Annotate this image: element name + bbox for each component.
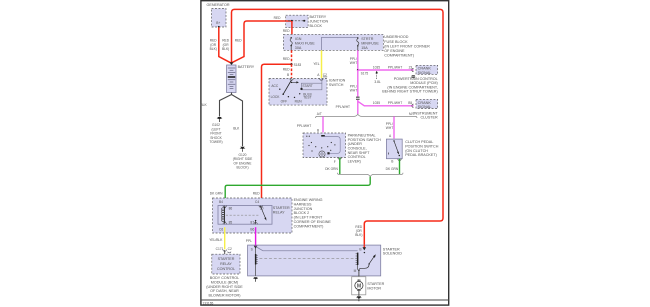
svg-text:ENGINE WIRING: ENGINE WIRING [294,198,323,202]
svg-text:BLK: BLK [233,127,240,131]
fuse STRTR MINIFUSE 15A [357,37,359,39]
svg-text:CONTROL: CONTROL [217,267,235,271]
svg-text:RED: RED [283,68,291,72]
node battery positive arrow [230,62,234,65]
crank signal PCM box [416,65,438,75]
wire PPL/WHT S175 to PCM crank signal [358,69,414,71]
svg-text:RED: RED [283,57,291,61]
node S183 [290,63,292,65]
instrument cluster label [414,111,439,119]
svg-text:SIGNAL: SIGNAL [418,71,432,75]
wire PPL relay B6 to solenoid S [255,227,257,245]
svg-text:PEDAL BRACKET): PEDAL BRACKET) [405,153,437,157]
svg-text:B4: B4 [219,200,223,204]
battery [227,65,255,93]
svg-text:BEHIND RIGHT STRUT TOWER): BEHIND RIGHT STRUT TOWER) [382,90,437,94]
svg-text:CLUSTER: CLUSTER [420,116,438,120]
svg-text:PPL/WHT: PPL/WHT [388,65,402,69]
svg-text:M: M [354,269,357,273]
svg-text:15A: 15A [361,46,368,50]
svg-text:23: 23 [409,65,413,69]
svg-text:JUNCTION: JUNCTION [294,207,313,211]
relay coil [224,206,226,225]
svg-text:(IN LEFT FRONT: (IN LEFT FRONT [294,216,323,220]
crank signal cluster box [416,99,438,109]
svg-text:LEVER): LEVER) [348,159,361,163]
solenoid contact B [364,252,365,253]
fuse block internal bus [322,37,358,50]
park/neutral position switch [303,133,381,163]
ground below solenoid S winding [253,277,258,282]
svg-text:C6: C6 [219,228,223,232]
svg-text:BLK: BLK [201,103,208,107]
svg-text:85: 85 [229,221,233,225]
svg-text:RELAY: RELAY [273,211,285,215]
svg-text:B: B [391,159,393,163]
svg-text:BLOWER MOTOR): BLOWER MOTOR) [209,293,241,297]
pin 23 bracket [412,68,414,71]
PCM connector icon [412,75,416,78]
A/T M/T option brace [316,112,418,118]
solenoid switch arm [369,257,374,264]
svg-text:TOWER): TOWER) [209,140,222,144]
svg-text:B+: B+ [216,21,220,25]
svg-text:3.8L: 3.8L [374,80,381,84]
svg-text:YEL/BLK: YEL/BLK [209,238,223,242]
engine wiring harness junction block 2 [213,198,332,233]
ground G120 [233,147,253,170]
svg-text:BLK): BLK) [210,47,217,51]
wire RED battery to battery junction block [232,21,285,62]
solenoid link dashed [260,258,357,260]
svg-text:TEST: TEST [303,96,311,100]
wire PPL/WHT A/T branch to park/neutral switch [322,116,324,132]
svg-text:C171: C171 [216,247,224,251]
switch arm and contacts [283,80,291,94]
svg-text:RELAY: RELAY [220,262,232,266]
svg-text:1035: 1035 [373,65,380,69]
border frame [201,1,450,305]
DK GRN join brace [337,173,403,177]
svg-text:FUSE BLOCK: FUSE BLOCK [384,40,408,44]
svg-text:C4: C4 [255,200,259,204]
clutch pedal position switch [386,139,438,159]
svg-text:COMPARTMENT): COMPARTMENT) [384,54,414,58]
svg-text:B5: B5 [408,101,412,105]
svg-text:HARNESS: HARNESS [294,202,312,206]
svg-text:START: START [302,84,312,88]
starter solenoid [248,245,403,276]
underhood fuse block [283,34,430,57]
svg-text:WHT: WHT [350,88,357,92]
svg-text:PPL/WHT: PPL/WHT [336,105,350,109]
label RED (OR BLK) left [210,39,218,52]
svg-text:SIGNAL: SIGNAL [418,105,432,109]
label RED (OR BLK) at solenoid B feed [355,225,363,237]
svg-text:LOCK: LOCK [271,95,281,99]
ground below starter motor [356,292,361,302]
svg-text:ACC: ACC [271,84,279,88]
fuse IGN MAXI FUSE 30A [290,37,292,39]
engine option arrow 3.8L [376,73,378,79]
svg-text:MOTOR: MOTOR [367,287,381,291]
svg-text:RED: RED [253,192,261,196]
svg-text:B: B [359,248,361,252]
wire PPL/WHT STRTR minifuse to S175 [357,50,359,70]
svg-text:DK GRN: DK GRN [210,192,223,196]
svg-text:B6: B6 [250,228,254,232]
svg-text:BLK): BLK) [355,233,362,237]
svg-text:B: B [287,73,289,77]
svg-text:(IN LEFT FRONT CORNER: (IN LEFT FRONT CORNER [384,44,430,48]
svg-text:CORNER OF ENGINE: CORNER OF ENGINE [294,220,332,224]
svg-text:PPL: PPL [246,239,252,243]
ignition switch [269,73,346,105]
wire RED junction block to IGN MAXI FUSE [291,21,293,37]
wire PPL/WHT connector to branches [357,100,359,114]
starter relay [218,206,290,225]
svg-text:C2: C2 [323,73,327,77]
svg-text:133165: 133165 [203,301,214,305]
svg-text:BLOCK 2: BLOCK 2 [294,211,310,215]
wire RED fuse to S183 (fusible link dashed) [291,50,293,63]
svg-text:RUN: RUN [295,100,303,104]
svg-text:M/T: M/T [409,112,415,116]
svg-text:A/T: A/T [317,112,322,116]
wire RED tail into solenoid B [363,245,365,248]
svg-text:COMPARTMENT): COMPARTMENT) [294,224,324,228]
wire DK GRN park/neutral F to brace [339,158,341,175]
svg-text:OFF: OFF [281,100,288,104]
battery junction block [286,15,329,28]
svg-text:C2: C2 [228,247,232,251]
svg-text:B: B [317,128,319,132]
winding link [256,247,358,251]
wire BLK battery negative to grounds [220,93,232,117]
wire DK GRN brace to starter relay B4 [225,177,370,205]
wire RED S183 to ignition switch B [291,64,293,78]
wire PPL tail into solenoid S [255,244,257,247]
svg-text:BATTERY: BATTERY [238,65,255,69]
wire PPL/WHT S175 down to connector [357,70,359,97]
svg-text:PPL/WHT: PPL/WHT [297,124,311,128]
inline connector C100 [356,97,360,100]
svg-text:RED: RED [274,16,282,20]
svg-text:BLOCK): BLOCK) [236,166,248,170]
wire RED battery positive main cable to starter solenoid B [232,9,444,245]
svg-text:S175: S175 [361,71,369,75]
starter motor [352,277,385,295]
wire RED S183 to starter relay C4 [262,64,292,204]
svg-text:30A: 30A [295,46,302,50]
solenoid pull-in winding [255,248,257,276]
wire PPL/WHT M/T branch to clutch switch [393,116,395,138]
svg-text:RED: RED [235,39,243,43]
node S175 [357,69,359,71]
svg-text:S183: S183 [294,63,302,67]
svg-text:RED: RED [283,29,291,33]
svg-text:1035: 1035 [373,101,380,105]
svg-text:DK GRN: DK GRN [325,167,338,171]
svg-text:WHT: WHT [386,126,393,130]
svg-text:M: M [357,283,361,289]
wire DK GRN clutch B to brace [399,159,401,174]
generator G1 [207,3,230,28]
svg-text:BLOCK: BLOCK [310,24,323,28]
wire PPL/WHT branch to instrument cluster crank signal [358,101,414,106]
svg-text:DK GRN: DK GRN [386,167,399,171]
svg-text:PPL/WHT: PPL/WHT [388,101,402,105]
svg-text:SWITCH: SWITCH [329,83,344,87]
svg-text:STARTER: STARTER [218,257,235,261]
svg-text:87: 87 [250,221,254,225]
BCM starter relay control [212,254,240,274]
svg-text:UNDERHOOD: UNDERHOOD [384,35,409,39]
svg-text:WHT: WHT [350,61,357,65]
wire RED generator B+ to battery [219,27,231,63]
svg-text:BLK): BLK) [222,47,229,51]
wire solenoid M to starter motor [358,270,360,281]
relay link dashed [226,214,260,216]
svg-text:OF ENGINE: OF ENGINE [384,49,405,53]
relay switch [260,206,261,207]
svg-text:GENERATOR: GENERATOR [207,3,230,7]
wire YEL/BLK relay C6 to BCM [224,227,226,249]
svg-text:YEL: YEL [313,62,319,66]
label RED (OR BLK) middle [222,39,230,52]
svg-text:IGNITION: IGNITION [329,78,346,82]
wire YEL fuse block to ignition switch A [321,50,323,78]
ground G102 [209,117,222,144]
svg-text:SOLENOID: SOLENOID [383,252,402,256]
PCM label [382,77,438,94]
svg-text:F: F [334,160,336,164]
svg-text:86: 86 [229,207,233,211]
